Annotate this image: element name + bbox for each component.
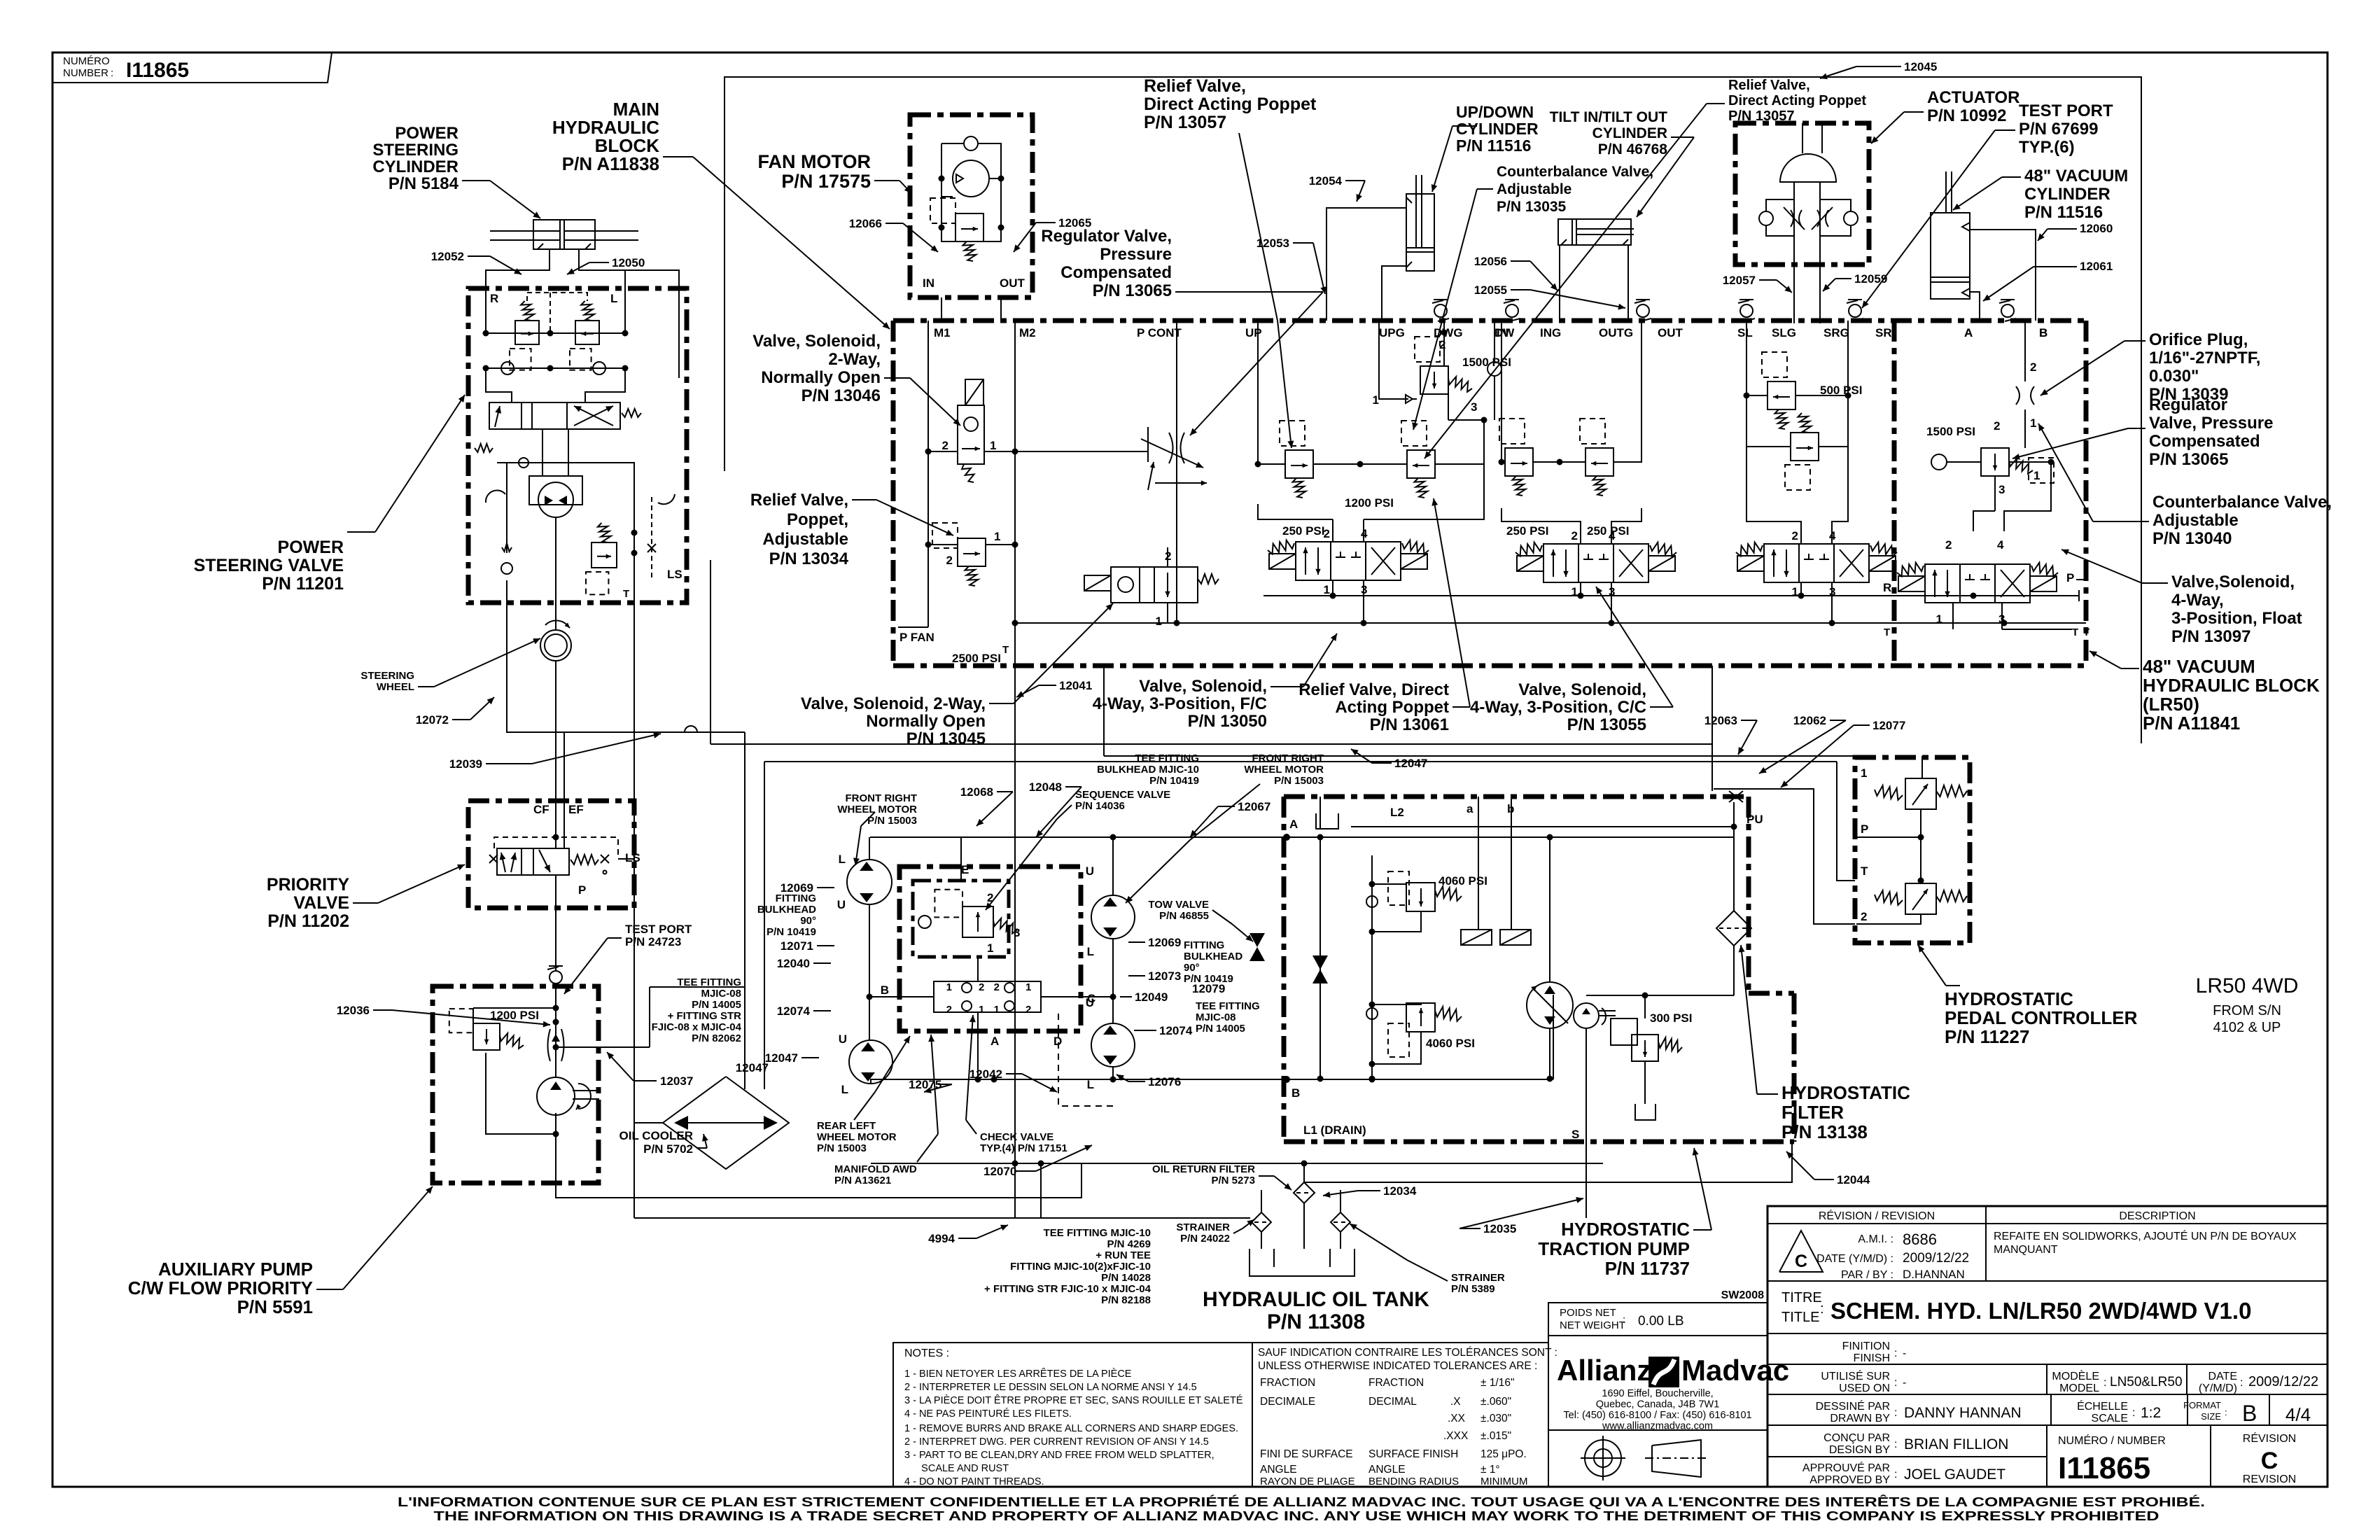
- svg-text:SEQUENCE VALVE: SEQUENCE VALVE: [1075, 789, 1170, 801]
- svg-text:C/W FLOW PRIORITY: C/W FLOW PRIORITY: [128, 1277, 313, 1298]
- svg-text:LS: LS: [625, 851, 640, 864]
- svg-text:P/N 14005: P/N 14005: [1196, 1023, 1245, 1035]
- svg-text:12047: 12047: [736, 1061, 769, 1074]
- svg-text:REFAITE EN SOLIDWORKS, AJOUTÉ: REFAITE EN SOLIDWORKS, AJOUTÉ UN P/N DE …: [1994, 1229, 2297, 1242]
- svg-text:Relief Valve,: Relief Valve,: [1728, 78, 1810, 93]
- svg-text:1200 PSI: 1200 PSI: [490, 1009, 539, 1022]
- svg-text:P/N 67699: P/N 67699: [2019, 120, 2098, 139]
- svg-text:4: 4: [1829, 529, 1836, 542]
- svg-text:DESIGN BY: DESIGN BY: [1829, 1444, 1890, 1456]
- svg-text:12041: 12041: [1059, 679, 1092, 692]
- svg-text:WHEEL: WHEEL: [377, 681, 414, 693]
- svg-text:2: 2: [942, 439, 948, 452]
- svg-text:UP: UP: [1245, 326, 1262, 339]
- svg-text:P/N 13065: P/N 13065: [1093, 281, 1172, 300]
- svg-text:TRACTION PUMP: TRACTION PUMP: [1538, 1238, 1690, 1259]
- svg-text:Allianz: Allianz: [1557, 1354, 1651, 1387]
- svg-text:P/N 13050: P/N 13050: [1188, 712, 1267, 731]
- svg-text:BRIAN FILLION: BRIAN FILLION: [1904, 1436, 2008, 1452]
- svg-text:PU: PU: [1746, 813, 1763, 826]
- svg-text:RÉVISION: RÉVISION: [2243, 1431, 2296, 1445]
- svg-text:+ FITTING STR: + FITTING STR: [668, 1010, 742, 1022]
- svg-text:SAUF INDICATION CONTRAIRE LES: SAUF INDICATION CONTRAIRE LES TOLÉRANCES…: [1258, 1347, 1557, 1359]
- svg-text:12044: 12044: [1837, 1173, 1870, 1186]
- svg-text:UNLESS OTHERWISE INDICATED TOL: UNLESS OTHERWISE INDICATED TOLERANCES AR…: [1258, 1360, 1537, 1372]
- svg-text:FRONT RIGHT: FRONT RIGHT: [846, 792, 918, 804]
- svg-text:FINITION: FINITION: [1842, 1340, 1890, 1352]
- svg-text:3: 3: [1471, 400, 1477, 414]
- svg-text:C: C: [1795, 1252, 1807, 1271]
- svg-text:+ RUN TEE: + RUN TEE: [1095, 1249, 1151, 1261]
- svg-text:P/N 82062: P/N 82062: [692, 1032, 741, 1044]
- svg-text:ÉCHELLE: ÉCHELLE: [2077, 1399, 2128, 1413]
- svg-text:12036: 12036: [337, 1004, 370, 1017]
- svg-text:P/N 13138: P/N 13138: [1781, 1121, 1868, 1142]
- svg-text:P/N 15003: P/N 15003: [817, 1142, 867, 1154]
- svg-text:P/N 13057: P/N 13057: [1728, 108, 1795, 124]
- svg-text:TYP.(4) P/N 17151: TYP.(4) P/N 17151: [980, 1142, 1067, 1154]
- svg-text:OIL RETURN FILTER: OIL RETURN FILTER: [1152, 1163, 1255, 1175]
- svg-text:48" VACUUM: 48" VACUUM: [2024, 167, 2128, 185]
- svg-text:T: T: [1002, 644, 1009, 656]
- svg-text:L: L: [839, 853, 846, 866]
- svg-text:1 - BIEN NETOYER LES ARRÊTES D: 1 - BIEN NETOYER LES ARRÊTES DE LA PIÈCE: [904, 1368, 1132, 1380]
- svg-text:12034: 12034: [1383, 1184, 1417, 1198]
- svg-text:P/N 10419: P/N 10419: [1184, 973, 1233, 985]
- svg-text:± 1°: ± 1°: [1480, 1464, 1500, 1476]
- svg-text:P/N 13045: P/N 13045: [906, 729, 986, 748]
- svg-text:CYLINDER: CYLINDER: [1592, 125, 1667, 141]
- svg-text:HYDRAULIC OIL TANK: HYDRAULIC OIL TANK: [1203, 1288, 1429, 1311]
- svg-text:MANQUANT: MANQUANT: [1994, 1244, 2058, 1256]
- svg-text::: :: [1894, 1469, 1897, 1480]
- svg-text:BENDING RADIUS: BENDING RADIUS: [1368, 1476, 1459, 1487]
- svg-text:12057: 12057: [1723, 274, 1756, 287]
- svg-text:DRAWN BY: DRAWN BY: [1830, 1413, 1890, 1424]
- svg-text:M2: M2: [1019, 326, 1036, 339]
- svg-text:2009/12/22: 2009/12/22: [1903, 1251, 1969, 1266]
- svg-text:Normally Open: Normally Open: [866, 712, 986, 731]
- svg-text:Counterbalance Valve,: Counterbalance Valve,: [2152, 493, 2332, 512]
- svg-text:±.015": ±.015": [1480, 1430, 1511, 1442]
- svg-text:P/N 13055: P/N 13055: [1567, 715, 1646, 734]
- svg-text:P/N 13046: P/N 13046: [801, 386, 881, 405]
- svg-text:B: B: [1291, 1086, 1300, 1100]
- svg-text:Adjustable: Adjustable: [1497, 181, 1571, 197]
- svg-text::: :: [1894, 1377, 1897, 1389]
- svg-text:Valve, Pressure: Valve, Pressure: [2149, 414, 2273, 433]
- svg-text:Valve, Solenoid,: Valve, Solenoid,: [752, 332, 881, 351]
- svg-text:CYLINDER: CYLINDER: [1456, 120, 1539, 138]
- svg-text:2: 2: [1994, 419, 2000, 433]
- svg-text:D.HANNAN: D.HANNAN: [1903, 1268, 1965, 1281]
- svg-text:12037: 12037: [660, 1074, 693, 1088]
- svg-text:WHEEL MOTOR: WHEEL MOTOR: [1244, 764, 1324, 776]
- svg-text:TITLE: TITLE: [1781, 1310, 1819, 1325]
- svg-text:.XXX: .XXX: [1443, 1430, 1469, 1442]
- svg-text:P: P: [578, 883, 586, 897]
- svg-text:IN: IN: [923, 276, 934, 290]
- svg-text:SURFACE FINISH: SURFACE FINISH: [1368, 1448, 1458, 1460]
- svg-text:P/N 11737: P/N 11737: [1605, 1258, 1690, 1279]
- svg-text:FRACTION: FRACTION: [1368, 1377, 1424, 1389]
- svg-text:+ FITTING STR FJIC-10 x MJIC-0: + FITTING STR FJIC-10 x MJIC-04: [984, 1283, 1151, 1295]
- svg-text:I11865: I11865: [2058, 1451, 2150, 1485]
- svg-text:2009/12/22: 2009/12/22: [2248, 1374, 2318, 1389]
- svg-text:4/4: 4/4: [2285, 1404, 2311, 1425]
- svg-text:4 - DO NOT PAINT THREADS.: 4 - DO NOT PAINT THREADS.: [904, 1476, 1044, 1487]
- svg-text:Adjustable: Adjustable: [762, 530, 848, 549]
- svg-text:P/N 46855: P/N 46855: [1159, 910, 1209, 922]
- svg-text:ING: ING: [1540, 326, 1561, 339]
- svg-text:12054: 12054: [1309, 174, 1343, 188]
- svg-text:CONÇU PAR: CONÇU PAR: [1823, 1432, 1890, 1444]
- svg-text:Regulator: Regulator: [2149, 395, 2227, 414]
- svg-text:P/N A11838: P/N A11838: [562, 153, 659, 174]
- svg-text:0.00 LB: 0.00 LB: [1638, 1314, 1684, 1329]
- svg-text:T: T: [2072, 626, 2078, 638]
- svg-text:12067: 12067: [1238, 800, 1270, 813]
- svg-text:1: 1: [1792, 585, 1798, 598]
- svg-text:P/N 14028: P/N 14028: [1101, 1272, 1151, 1284]
- svg-text:P/N 13035: P/N 13035: [1497, 199, 1567, 215]
- svg-text:DESSINÉ PAR: DESSINÉ PAR: [1816, 1399, 1890, 1413]
- svg-text:1: 1: [979, 1004, 984, 1016]
- svg-text:OUT: OUT: [1000, 276, 1025, 290]
- svg-text:FITTING: FITTING: [776, 892, 816, 904]
- svg-text:1: 1: [994, 530, 1000, 543]
- svg-text:UTILISÉ SUR: UTILISÉ SUR: [1821, 1369, 1890, 1382]
- svg-text:P/N 15003: P/N 15003: [1274, 775, 1324, 787]
- svg-text:JOEL GAUDET: JOEL GAUDET: [1904, 1466, 2005, 1483]
- svg-text:12075: 12075: [909, 1078, 941, 1091]
- svg-text:-: -: [1903, 1377, 1906, 1389]
- svg-text:PRIORITY: PRIORITY: [267, 875, 349, 895]
- svg-text:NUMBER: NUMBER: [63, 67, 108, 79]
- svg-text:SRG: SRG: [1823, 326, 1849, 339]
- svg-text:TEE FITTING: TEE FITTING: [1196, 1000, 1260, 1012]
- svg-text:90°: 90°: [800, 915, 816, 927]
- svg-text:Quebec, Canada, J4B 7W1: Quebec, Canada, J4B 7W1: [1596, 1399, 1720, 1410]
- svg-text:FRONT RIGHT: FRONT RIGHT: [1252, 752, 1324, 764]
- svg-text:T: T: [1861, 864, 1868, 878]
- svg-text:12035: 12035: [1483, 1222, 1516, 1235]
- svg-text:4102 & UP: 4102 & UP: [2213, 1020, 2281, 1035]
- svg-text:ANGLE: ANGLE: [1368, 1464, 1406, 1476]
- svg-text:P/N 4269: P/N 4269: [1107, 1238, 1151, 1250]
- svg-text:2: 2: [1571, 529, 1578, 542]
- svg-text:2-Way,: 2-Way,: [828, 350, 881, 369]
- svg-text:12071: 12071: [780, 939, 813, 953]
- svg-text:12047: 12047: [765, 1051, 798, 1065]
- svg-text:1690 Eiffel, Boucherville,: 1690 Eiffel, Boucherville,: [1602, 1388, 1713, 1399]
- svg-text:12042: 12042: [969, 1067, 1002, 1081]
- svg-text:Counterbalance Valve,: Counterbalance Valve,: [1497, 164, 1653, 180]
- svg-text:3 - PART TO BE CLEAN,DRY AND F: 3 - PART TO BE CLEAN,DRY AND FREE FROM W…: [904, 1450, 1214, 1461]
- svg-text:4 - NE PAS PEINTURÉ LES FILETS: 4 - NE PAS PEINTURÉ LES FILETS.: [904, 1408, 1072, 1420]
- svg-text:12049: 12049: [1135, 990, 1168, 1004]
- svg-text:A: A: [990, 1035, 999, 1048]
- svg-text:1: 1: [987, 941, 993, 955]
- svg-text:12076: 12076: [1148, 1075, 1181, 1088]
- svg-text:12056: 12056: [1474, 255, 1507, 268]
- svg-text:12072: 12072: [416, 713, 449, 727]
- svg-text:T: T: [1884, 626, 1890, 638]
- svg-text:90°: 90°: [1184, 962, 1200, 974]
- svg-text:12055: 12055: [1474, 283, 1507, 297]
- svg-text:B: B: [881, 983, 889, 997]
- svg-text:Adjustable: Adjustable: [2152, 511, 2239, 530]
- svg-text:BULKHEAD: BULKHEAD: [1184, 951, 1242, 962]
- svg-text:SW2008: SW2008: [1721, 1289, 1764, 1301]
- svg-text:3: 3: [1014, 926, 1020, 939]
- svg-text:P/N A13621: P/N A13621: [834, 1175, 891, 1186]
- svg-text:± 1/16": ± 1/16": [1480, 1377, 1514, 1389]
- svg-text:FILTER: FILTER: [1781, 1102, 1844, 1123]
- svg-text:12059: 12059: [1854, 272, 1887, 286]
- svg-text:P/N A11841: P/N A11841: [2143, 713, 2240, 734]
- svg-text:CYLINDER: CYLINDER: [2024, 185, 2110, 204]
- svg-text:B: B: [2039, 326, 2047, 339]
- svg-text:P/N 13057: P/N 13057: [1144, 113, 1226, 132]
- svg-text:REVISION: REVISION: [2243, 1473, 2296, 1485]
- svg-text:P/N 11202: P/N 11202: [267, 911, 349, 931]
- svg-text::: :: [1820, 1301, 1824, 1317]
- svg-text:UP/DOWN: UP/DOWN: [1456, 103, 1534, 121]
- svg-text:P/N 17575: P/N 17575: [781, 171, 871, 192]
- svg-text:1: 1: [994, 1004, 1000, 1016]
- svg-text::: :: [1623, 1314, 1625, 1326]
- svg-text:1: 1: [1936, 612, 1942, 626]
- svg-text:P/N 15003: P/N 15003: [867, 815, 917, 827]
- svg-text:P/N 10419: P/N 10419: [1149, 775, 1199, 787]
- svg-text::: :: [1894, 1347, 1897, 1359]
- svg-text:OUTG: OUTG: [1599, 326, 1633, 339]
- svg-text:C: C: [1087, 992, 1095, 1005]
- svg-text:C: C: [2261, 1448, 2278, 1474]
- svg-text:R: R: [490, 292, 498, 305]
- svg-text:250 PSI: 250 PSI: [1282, 524, 1325, 538]
- svg-text:ANGLE: ANGLE: [1260, 1464, 1297, 1476]
- svg-text:1: 1: [1373, 393, 1379, 407]
- svg-text:2: 2: [1439, 338, 1445, 351]
- svg-text:12048: 12048: [1029, 780, 1062, 794]
- svg-text:THE INFORMATION ON THIS DRAWIN: THE INFORMATION ON THIS DRAWING IS A TRA…: [434, 1509, 2159, 1523]
- svg-text:APPROUVÉ PAR: APPROUVÉ PAR: [1802, 1461, 1890, 1474]
- svg-text:DESCRIPTION: DESCRIPTION: [2119, 1210, 2195, 1222]
- svg-text::: :: [2132, 1407, 2135, 1419]
- svg-text:3 - LA PIÈCE DOIT ÊTRE PROPRE: 3 - LA PIÈCE DOIT ÊTRE PROPRE ET SEC, SA…: [904, 1394, 1243, 1406]
- svg-text:UPG: UPG: [1379, 326, 1405, 339]
- svg-text:PEDAL CONTROLLER: PEDAL CONTROLLER: [1945, 1007, 2138, 1028]
- svg-text:TILT IN/TILT OUT: TILT IN/TILT OUT: [1550, 109, 1668, 125]
- svg-text:P/N 82188: P/N 82188: [1101, 1294, 1151, 1306]
- svg-text:Normally Open: Normally Open: [761, 368, 881, 387]
- svg-text:Tel: (450) 616-8100 / Fax: (45: Tel: (450) 616-8100 / Fax: (450) 616-810…: [1563, 1410, 1751, 1421]
- svg-text:L'INFORMATION CONTENUE SUR CE: L'INFORMATION CONTENUE SUR CE PLAN EST S…: [398, 1494, 2205, 1509]
- svg-text:OUT: OUT: [1658, 326, 1683, 339]
- svg-text:A: A: [1964, 326, 1973, 339]
- svg-text:WHEEL MOTOR: WHEEL MOTOR: [837, 804, 917, 815]
- svg-text:12074: 12074: [1159, 1024, 1193, 1037]
- svg-text:P/N 11308: P/N 11308: [1267, 1310, 1365, 1333]
- svg-text:P/N 5702: P/N 5702: [643, 1142, 693, 1156]
- svg-text:1500 PSI: 1500 PSI: [1926, 425, 1975, 438]
- svg-text:1: 1: [1571, 585, 1578, 598]
- svg-text:2: 2: [946, 1004, 952, 1016]
- svg-text:L: L: [1087, 1078, 1094, 1091]
- svg-text:12077: 12077: [1872, 719, 1905, 732]
- svg-text:I11865: I11865: [126, 59, 189, 82]
- svg-text:HYDROSTATIC: HYDROSTATIC: [1561, 1219, 1690, 1240]
- svg-text:1:2: 1:2: [2141, 1405, 2161, 1421]
- svg-text:4: 4: [1609, 529, 1616, 542]
- svg-text:P/N 10992: P/N 10992: [1927, 106, 2006, 125]
- svg-text:4-Way, 3-Position, F/C: 4-Way, 3-Position, F/C: [1093, 694, 1267, 713]
- svg-text:2: 2: [1861, 910, 1867, 923]
- svg-text::: :: [2240, 1377, 2243, 1389]
- svg-text:P/N 13061: P/N 13061: [1370, 715, 1449, 734]
- svg-text:POWER: POWER: [395, 124, 458, 143]
- svg-text:2: 2: [994, 981, 1000, 993]
- svg-text:P/N 13034: P/N 13034: [769, 549, 849, 568]
- svg-text:12050: 12050: [612, 256, 645, 269]
- svg-text:12045: 12045: [1904, 60, 1937, 73]
- svg-text:R: R: [1883, 581, 1891, 594]
- svg-text:MANIFOLD AWD: MANIFOLD AWD: [834, 1163, 917, 1175]
- svg-text:P/N 11516: P/N 11516: [1456, 136, 1531, 155]
- svg-text:TYP.(6): TYP.(6): [2019, 138, 2075, 157]
- svg-text:-: -: [1903, 1347, 1906, 1359]
- svg-text:DATE: DATE: [2208, 1371, 2237, 1382]
- svg-text:EF: EF: [568, 803, 584, 816]
- svg-text:PAR / BY :: PAR / BY :: [1841, 1269, 1893, 1281]
- svg-text:a: a: [1466, 802, 1473, 815]
- svg-text:Valve, Solenoid,: Valve, Solenoid,: [1139, 677, 1267, 696]
- svg-text:CF: CF: [533, 803, 549, 816]
- svg-text:P/N 13065: P/N 13065: [2149, 450, 2228, 469]
- svg-text:P: P: [2066, 571, 2074, 584]
- svg-text:TOW VALVE: TOW VALVE: [1148, 899, 1209, 911]
- svg-text:P/N 14005: P/N 14005: [692, 999, 741, 1011]
- svg-text:FRACTION: FRACTION: [1260, 1377, 1315, 1389]
- svg-text:Direct Acting Poppet: Direct Acting Poppet: [1728, 93, 1866, 108]
- svg-text:12070: 12070: [983, 1165, 1016, 1178]
- svg-text:1: 1: [990, 439, 996, 452]
- svg-text:B: B: [2242, 1401, 2257, 1426]
- svg-text:TITRE: TITRE: [1781, 1290, 1822, 1305]
- svg-text:L1 (DRAIN): L1 (DRAIN): [1303, 1123, 1366, 1137]
- svg-text:12060: 12060: [2080, 222, 2113, 235]
- svg-text:MODEL: MODEL: [2059, 1382, 2099, 1394]
- svg-text:CYLINDER: CYLINDER: [372, 157, 458, 176]
- svg-text:P/N 11201: P/N 11201: [262, 574, 344, 594]
- svg-text:STEERING: STEERING: [360, 670, 414, 682]
- svg-text:Valve, Solenoid, 2-Way,: Valve, Solenoid, 2-Way,: [801, 694, 986, 713]
- svg-text:Compensated: Compensated: [1060, 263, 1172, 282]
- svg-text:T: T: [2083, 626, 2089, 638]
- svg-text:12047: 12047: [1394, 757, 1427, 770]
- svg-text:1: 1: [2033, 469, 2040, 482]
- svg-text:POIDS NET: POIDS NET: [1560, 1307, 1616, 1319]
- svg-text:Direct Acting Poppet: Direct Acting Poppet: [1144, 94, 1317, 114]
- svg-text:(LR50): (LR50): [2143, 694, 2199, 715]
- svg-text:1/16"-27NPTF,: 1/16"-27NPTF,: [2149, 349, 2260, 367]
- svg-text:U: U: [1086, 864, 1094, 878]
- svg-text:P/N 11227: P/N 11227: [1945, 1026, 2029, 1047]
- svg-text:L: L: [610, 292, 617, 305]
- svg-text:SCALE: SCALE: [2092, 1413, 2128, 1424]
- svg-text:NET WEIGHT: NET WEIGHT: [1560, 1319, 1625, 1331]
- svg-text:FITTING: FITTING: [1184, 939, 1224, 951]
- svg-text:SCALE AND RUST: SCALE AND RUST: [904, 1463, 1009, 1474]
- svg-text:L: L: [1087, 945, 1094, 958]
- svg-text:LN50&LR50: LN50&LR50: [2110, 1375, 2183, 1389]
- svg-text::: :: [2225, 1407, 2227, 1417]
- svg-text:4-Way,: 4-Way,: [2171, 591, 2224, 610]
- svg-text:P/N 10419: P/N 10419: [766, 926, 816, 938]
- svg-text:RAYON DE PLIAGE: RAYON DE PLIAGE: [1260, 1476, 1355, 1487]
- svg-text:P FAN: P FAN: [899, 631, 934, 644]
- svg-text:RÉVISION / REVISION: RÉVISION / REVISION: [1819, 1209, 1935, 1222]
- svg-text:DECIMAL: DECIMAL: [1368, 1396, 1417, 1408]
- svg-text:FINI DE SURFACE: FINI DE SURFACE: [1260, 1448, 1353, 1460]
- svg-text:NOTES :: NOTES :: [904, 1347, 949, 1359]
- svg-text:WHEEL MOTOR: WHEEL MOTOR: [817, 1131, 897, 1143]
- svg-text:12039: 12039: [449, 757, 482, 771]
- svg-text:300 PSI: 300 PSI: [1650, 1011, 1693, 1025]
- svg-text:P/N 13040: P/N 13040: [2152, 529, 2232, 548]
- svg-text:4060 PSI: 4060 PSI: [1438, 874, 1487, 888]
- svg-text:125 μPO.: 125 μPO.: [1480, 1448, 1527, 1460]
- svg-text::: :: [2103, 1377, 2106, 1389]
- svg-text:SL: SL: [1737, 326, 1753, 339]
- svg-text::: :: [1894, 1407, 1897, 1419]
- svg-text:12074: 12074: [777, 1004, 811, 1018]
- svg-text:DECIMALE: DECIMALE: [1260, 1396, 1315, 1408]
- svg-text:2 - INTERPRET DWG. PER CURRENT: 2 - INTERPRET DWG. PER CURRENT REVISION …: [904, 1436, 1209, 1448]
- svg-text:S: S: [1571, 1128, 1579, 1141]
- svg-text:TEE FITTING: TEE FITTING: [1135, 752, 1199, 764]
- svg-text:Pressure: Pressure: [1100, 245, 1172, 264]
- svg-text:Relief Valve,: Relief Valve,: [750, 491, 848, 510]
- svg-text:HYDROSTATIC: HYDROSTATIC: [1945, 988, 2073, 1009]
- svg-text:12052: 12052: [431, 250, 464, 263]
- svg-text:Valve,Solenoid,: Valve,Solenoid,: [2171, 573, 2295, 591]
- svg-text:.XX: .XX: [1448, 1413, 1466, 1424]
- svg-text::: :: [1894, 1438, 1897, 1450]
- svg-text:Poppet,: Poppet,: [787, 510, 848, 529]
- svg-text:STRAINER: STRAINER: [1176, 1221, 1230, 1233]
- svg-text:12068: 12068: [960, 785, 993, 799]
- svg-text:FROM S/N: FROM S/N: [2213, 1003, 2281, 1018]
- svg-text:BULKHEAD MJIC-10: BULKHEAD MJIC-10: [1097, 764, 1199, 776]
- svg-text:APPROVED BY: APPROVED BY: [1809, 1474, 1890, 1486]
- svg-text::: :: [111, 67, 113, 79]
- svg-text:4060 PSI: 4060 PSI: [1426, 1037, 1475, 1050]
- svg-text:(Y/M/D): (Y/M/D): [2199, 1382, 2237, 1394]
- svg-text:STRAINER: STRAINER: [1451, 1272, 1505, 1284]
- svg-text:AUXILIARY PUMP: AUXILIARY PUMP: [158, 1259, 313, 1280]
- svg-text:P/N 5591: P/N 5591: [237, 1296, 313, 1317]
- svg-text:P/N 14036: P/N 14036: [1075, 800, 1125, 812]
- svg-text:REAR LEFT: REAR LEFT: [817, 1120, 876, 1132]
- svg-text:2500 PSI: 2500 PSI: [952, 652, 1001, 665]
- svg-text:0.030": 0.030": [2149, 367, 2199, 386]
- svg-text:BULKHEAD: BULKHEAD: [757, 904, 816, 916]
- svg-text:TEST PORT: TEST PORT: [2019, 101, 2113, 120]
- svg-text:ACTUATOR: ACTUATOR: [1927, 88, 2019, 107]
